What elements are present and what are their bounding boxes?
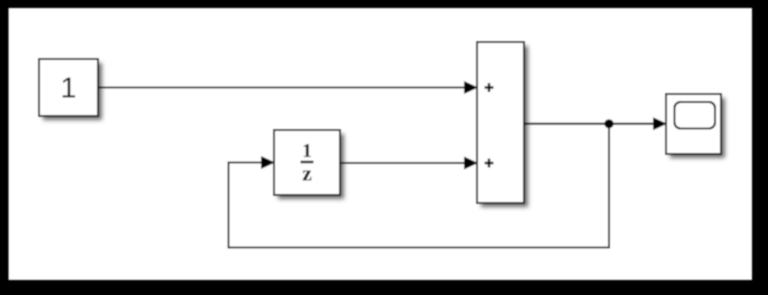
svg-text:1: 1 — [60, 73, 76, 105]
svg-text:1: 1 — [302, 140, 312, 162]
svg-text:z: z — [302, 161, 312, 186]
